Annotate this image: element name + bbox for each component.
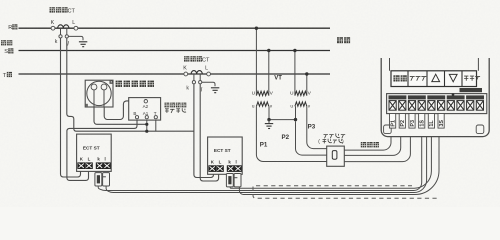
wire VT2 V lead bbox=[306, 74, 308, 96]
label CT1 keikiyou bbox=[50, 7, 68, 12]
terminal switch T bbox=[154, 116, 157, 119]
junction R-VT1U bbox=[255, 27, 258, 30]
wire ammeter inner lead2 bbox=[103, 90, 105, 107]
wire bundle 3S-a bbox=[230, 129, 431, 189]
wire switch-T stub bbox=[155, 119, 157, 132]
terminal CT1 k bbox=[59, 35, 62, 38]
wire CT2-k to ECT2-K bbox=[194, 84, 214, 178]
wire T-phase bus bbox=[19, 73, 331, 75]
wire R-phase bus bbox=[19, 27, 331, 29]
button divider bbox=[426, 71, 428, 87]
breaker fuse box bbox=[327, 146, 345, 166]
label button settei bbox=[393, 75, 406, 81]
terminal CT2 k bbox=[192, 81, 195, 84]
meter AC-ammeter face bbox=[87, 81, 111, 105]
label AC ammeter bbox=[116, 81, 154, 87]
terminal switch A2-top bbox=[144, 100, 147, 103]
label switch name line1 bbox=[165, 103, 187, 108]
meter foot right bbox=[476, 125, 484, 134]
junction S-VT2U bbox=[293, 49, 296, 52]
box ECT ST2 bbox=[208, 137, 243, 174]
ground CT1 bbox=[79, 42, 87, 47]
label breaker bu-re-ka bbox=[324, 133, 346, 138]
marking dot on strip bbox=[452, 93, 455, 96]
label S-phase sou bbox=[8, 48, 13, 53]
wire breaker to meter P2 bbox=[344, 129, 400, 156]
terminal switch B bbox=[135, 116, 138, 119]
wire S-phase bus bbox=[19, 50, 331, 52]
meter AC-ammeter box bbox=[85, 80, 113, 107]
label T-phase sou bbox=[7, 72, 12, 77]
dashed cable sheath top bbox=[256, 185, 412, 187]
label button light bbox=[464, 76, 480, 81]
meter terminal strip box bbox=[387, 94, 487, 114]
transformer VT2 primary bbox=[295, 91, 307, 95]
wire ammeter-A to A1 bbox=[94, 107, 147, 124]
wire VT2 U lead bbox=[294, 51, 296, 96]
meter button row box bbox=[391, 71, 477, 87]
wire breaker to meter P1 bbox=[344, 129, 410, 162]
wire breaker to meter P3 bbox=[344, 129, 391, 151]
wire bundle 3S-b bbox=[239, 129, 439, 195]
fuse element bbox=[332, 151, 337, 160]
terminal ammeter left bbox=[91, 84, 97, 90]
wire ammeter-B to A2 bbox=[104, 101, 144, 120]
switch current-changeover box bbox=[129, 98, 161, 121]
label R-phase sou bbox=[12, 24, 17, 29]
wire CT1-l jog bbox=[67, 38, 194, 131]
button divider bbox=[407, 71, 409, 87]
wire switch-A1 stub bbox=[146, 119, 148, 132]
label switch name line2 bbox=[165, 108, 186, 113]
wire P1 bbox=[256, 106, 326, 161]
model number dark label bbox=[460, 88, 483, 92]
wire CT1-k to ECT1-K bbox=[61, 38, 81, 177]
transformer VT2 secondary bbox=[295, 102, 307, 106]
wire CT1 l to ground bbox=[68, 36, 83, 40]
terminal tag 3S bbox=[438, 114, 444, 129]
wire ammeter inner leads bbox=[93, 90, 95, 107]
junction dot A1-lower bbox=[145, 130, 148, 133]
wire CT1 k lead bbox=[60, 28, 62, 35]
label CT2 keikiyou bbox=[184, 56, 202, 61]
screw ammeter corner bbox=[110, 81, 113, 84]
terminal CT2 L bbox=[207, 72, 211, 76]
wire CT2 l lead bbox=[199, 74, 201, 81]
wire bundle 1S bbox=[98, 129, 422, 191]
transformer CT1 primary humps bbox=[58, 25, 69, 28]
connector plugs ECT2 bbox=[226, 174, 241, 187]
meter foot left bbox=[384, 125, 392, 134]
terminal switch A1 bbox=[145, 116, 148, 119]
wire P2 bbox=[296, 121, 327, 155]
wire CT2 k lead bbox=[193, 74, 195, 81]
button divider bbox=[461, 71, 463, 87]
junction S-VT1V bbox=[267, 49, 270, 52]
transformer CT2 primary humps bbox=[191, 71, 202, 74]
wire P3 bbox=[307, 106, 330, 150]
terminal blocks ECT ST2 bbox=[208, 165, 241, 172]
label load fuka bbox=[337, 37, 350, 43]
wire VT secondary common bbox=[269, 106, 296, 119]
terminal CT1 L bbox=[74, 26, 78, 30]
connector plugs ECT1 bbox=[95, 173, 110, 186]
button up-triangle bbox=[432, 74, 440, 81]
label breaker hyuzu bbox=[323, 139, 343, 144]
terminal CT1 K bbox=[51, 26, 55, 30]
junction dot A1-upper bbox=[145, 123, 148, 126]
junction T-VT2V bbox=[305, 72, 308, 75]
meter inner chassis line bbox=[390, 58, 479, 71]
junction VT common left bbox=[267, 118, 270, 121]
transformer VT1 secondary bbox=[256, 102, 268, 106]
ground CT2 bbox=[211, 88, 219, 93]
button divider bbox=[444, 71, 446, 87]
wire CT2-l to ECT2-L bbox=[200, 84, 218, 181]
junction VT common right bbox=[294, 118, 297, 121]
meter case outer bbox=[381, 58, 489, 137]
dashed cable sheath bottom and left cap bbox=[253, 187, 440, 199]
wire switch-B to ECT1-L bbox=[67, 119, 137, 181]
wire bundle x2 bbox=[106, 126, 427, 193]
terminal tag P3 bbox=[409, 114, 415, 129]
wire VT1 U lead bbox=[255, 28, 257, 95]
terminal CT1 l bbox=[65, 35, 68, 38]
transformer VT1 primary bbox=[256, 91, 268, 95]
ground VT common bbox=[265, 124, 273, 129]
label button shift bbox=[410, 77, 427, 81]
wire CT2 l to ground bbox=[202, 82, 215, 86]
terminal tag P2 bbox=[399, 114, 405, 129]
box ECT ST1 bbox=[77, 134, 112, 171]
wire VT1 V lead bbox=[268, 51, 270, 96]
terminal tag 1S bbox=[419, 114, 425, 129]
label power-source dengen bbox=[1, 40, 12, 45]
terminal ammeter right bbox=[101, 84, 107, 90]
terminal CT2 K bbox=[184, 72, 188, 76]
terminal strip terminals bbox=[389, 95, 485, 110]
terminal CT2 l bbox=[199, 81, 202, 84]
wire common ground stub bbox=[268, 120, 270, 123]
terminal tag P1 bbox=[390, 114, 396, 129]
scan noise overlay bbox=[0, 0, 1, 1]
label voltage lines bbox=[361, 142, 379, 147]
terminal tag 1L bbox=[428, 114, 434, 129]
button down-triangle bbox=[449, 74, 457, 81]
wire CT1 l lead bbox=[66, 28, 68, 35]
terminal blocks ECT ST1 bbox=[77, 162, 110, 169]
